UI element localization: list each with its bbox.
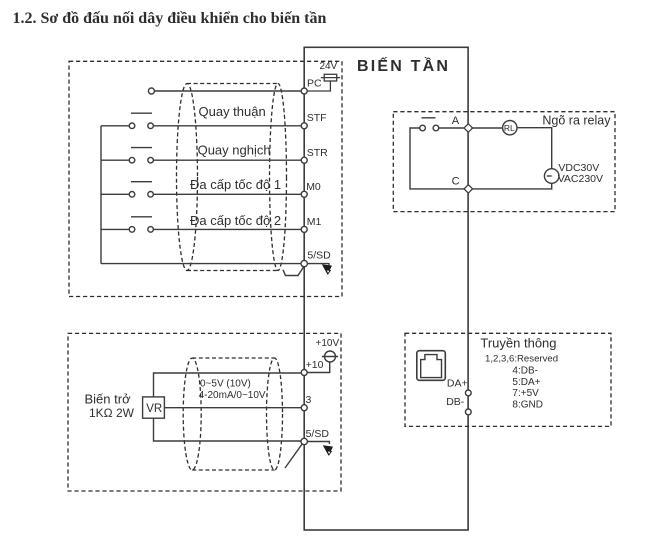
switch SW1 (Quay thuan) bbox=[101, 113, 153, 128]
svg-text:PC: PC bbox=[307, 78, 322, 90]
wire source to C bbox=[472, 183, 552, 189]
svg-text:8:GND: 8:GND bbox=[512, 399, 543, 410]
svg-text:3: 3 bbox=[306, 394, 312, 406]
potentiometer VR1 bbox=[143, 397, 165, 418]
wire STF bbox=[153, 125, 301, 127]
svg-text:5/SD: 5/SD bbox=[306, 428, 330, 440]
svg-text:1.2. Sơ đồ đấu nối dây điều kh: 1.2. Sơ đồ đấu nối dây điều khiển cho bi… bbox=[13, 10, 327, 27]
terminal 5/SD upper bbox=[301, 260, 307, 266]
wire pot wiper to 3 bbox=[164, 407, 301, 409]
svg-text:1KΩ 2W: 1KΩ 2W bbox=[89, 406, 135, 420]
source V1 bbox=[544, 169, 559, 184]
+10V source symbol bbox=[307, 351, 338, 373]
svg-text:7:+5V: 7:+5V bbox=[512, 388, 539, 399]
svg-text:M0: M0 bbox=[306, 181, 321, 193]
svg-text:A: A bbox=[452, 115, 460, 127]
svg-text:STF: STF bbox=[307, 112, 327, 124]
switch SW2 (Quay nghich) bbox=[101, 148, 153, 163]
shield cylinder (analog cable) bbox=[183, 358, 282, 470]
svg-text:Biến trở: Biến trở bbox=[85, 392, 132, 407]
svg-text:24V: 24V bbox=[320, 61, 338, 72]
wire relay left leg bbox=[410, 128, 465, 189]
wire pot bottom to 5/SD bbox=[154, 418, 302, 441]
wire M0 bbox=[153, 193, 301, 195]
svg-text:+10V: +10V bbox=[316, 338, 340, 349]
terminal C bbox=[464, 185, 472, 193]
svg-text:4-20mA/0~10V: 4-20mA/0~10V bbox=[199, 390, 266, 401]
switch SW3 (Da cap toc do 1) bbox=[101, 182, 153, 197]
terminal 5/SD lower bbox=[301, 438, 307, 444]
svg-text:4:DB-: 4:DB- bbox=[512, 366, 538, 377]
relay contact switch SW5 bbox=[420, 118, 439, 131]
svg-text:Truyền thông: Truyền thông bbox=[480, 336, 556, 351]
dashed enclosure: potentiometer group bbox=[68, 333, 341, 491]
fuse F1 24V bbox=[307, 74, 340, 91]
svg-text:STR: STR bbox=[307, 147, 328, 159]
svg-text:C: C bbox=[452, 176, 460, 188]
svg-text:0~5V (10V): 0~5V (10V) bbox=[200, 379, 251, 390]
terminal PC bbox=[301, 88, 307, 94]
contact circle PC stub bbox=[148, 88, 154, 94]
shield cylinder (digital input cable) bbox=[177, 84, 287, 271]
terminal +10 bbox=[301, 370, 307, 376]
terminal M1 bbox=[301, 226, 307, 232]
dashed enclosure: communication group bbox=[405, 333, 611, 426]
wire A to coil bbox=[439, 127, 503, 129]
svg-text:5:DA+: 5:DA+ bbox=[512, 377, 540, 388]
svg-text:RL: RL bbox=[504, 123, 515, 133]
svg-text:VR: VR bbox=[146, 403, 162, 415]
wire shield arrow lower bbox=[307, 442, 329, 445]
terminal M0 bbox=[301, 191, 307, 197]
svg-text:BIẾN TẦN: BIẾN TẦN bbox=[357, 56, 450, 75]
terminal A bbox=[464, 124, 472, 132]
RJ45 connector J1 bbox=[417, 351, 446, 381]
left bus wire bbox=[100, 126, 102, 264]
svg-text:M1: M1 bbox=[307, 216, 322, 228]
wire coil to source bbox=[517, 128, 552, 169]
shield pigtail upper bbox=[283, 266, 304, 276]
svg-text:1,2,3,6:Reserved: 1,2,3,6:Reserved bbox=[485, 354, 558, 365]
wire STR bbox=[153, 159, 301, 161]
shield pigtail lower bbox=[285, 444, 303, 469]
svg-text:+10: +10 bbox=[306, 359, 324, 371]
wire pot top to +10 bbox=[154, 373, 302, 397]
shield ground arrow lower bbox=[323, 445, 333, 456]
shield ground arrow upper bbox=[322, 264, 332, 275]
terminal 3 bbox=[301, 405, 307, 411]
wire PC stub bbox=[154, 90, 301, 92]
svg-text:Đa cấp tốc độ 2: Đa cấp tốc độ 2 bbox=[190, 213, 281, 228]
dashed enclosure: digital input group bbox=[69, 61, 342, 296]
terminal DA+ bbox=[465, 390, 471, 396]
terminal STF bbox=[301, 123, 307, 129]
switch SW4 (Da cap toc do 2) bbox=[101, 217, 153, 232]
terminal STR bbox=[301, 157, 307, 163]
wire shield arrow upper bbox=[307, 264, 329, 266]
inverter main box U1 BIEN TAN bbox=[304, 47, 468, 530]
svg-text:Đa cấp tốc độ 1: Đa cấp tốc độ 1 bbox=[190, 177, 281, 192]
svg-text:Quay nghịch: Quay nghịch bbox=[198, 143, 271, 158]
svg-text:DA+: DA+ bbox=[447, 378, 468, 390]
svg-text:Ngõ ra relay: Ngõ ra relay bbox=[542, 114, 611, 128]
dashed enclosure: relay output group bbox=[393, 112, 615, 212]
svg-text:Quay thuận: Quay thuận bbox=[199, 104, 266, 119]
terminal DB- bbox=[465, 409, 471, 415]
wire M1 bbox=[153, 228, 301, 230]
svg-text:5/SD: 5/SD bbox=[307, 250, 331, 262]
wire SD common bbox=[101, 263, 301, 265]
svg-text:VAC230V: VAC230V bbox=[558, 173, 603, 185]
svg-text:DB-: DB- bbox=[446, 396, 465, 408]
relay coil RL bbox=[503, 121, 517, 135]
